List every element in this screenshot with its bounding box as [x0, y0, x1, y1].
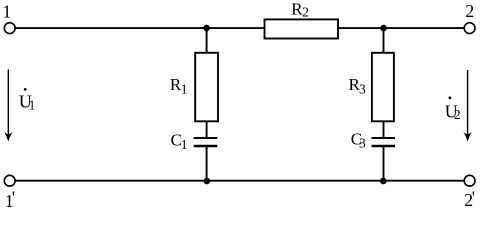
resistor R3	[372, 53, 394, 122]
arrow U1 (input voltage)	[4, 70, 13, 142]
wire: C1 down to node A'	[206, 146, 208, 181]
label U2 (dot over U)	[445, 96, 461, 121]
resistor R2	[265, 19, 339, 38]
arrow U2 (output voltage)	[463, 70, 472, 142]
svg-text:1: 1	[181, 82, 188, 97]
node B (top-right junction)	[380, 25, 387, 32]
label C3	[351, 129, 366, 150]
wire top-mid-right: R2 to node B	[338, 27, 384, 29]
wire bottom rail	[15, 180, 464, 182]
terminal 1 (top-left port)	[4, 23, 15, 34]
capacitor C1	[194, 138, 218, 146]
label R1	[170, 75, 188, 97]
svg-text:1: 1	[2, 1, 11, 21]
resistor R1	[195, 53, 218, 122]
svg-text:3: 3	[359, 135, 366, 150]
terminal 2' (bottom-right port)	[464, 175, 475, 186]
svg-text:3: 3	[359, 82, 366, 97]
svg-text:': '	[472, 187, 475, 207]
wire: C3 down to node B'	[383, 146, 385, 181]
terminal 2 (top-right port)	[464, 23, 475, 34]
wire: node B down to R3	[383, 28, 385, 52]
label R3	[349, 75, 367, 97]
wire: R1 to C1	[206, 121, 208, 138]
node A (top-left junction)	[203, 25, 210, 32]
svg-text:': '	[12, 188, 15, 208]
terminal 1' (bottom-left port)	[4, 175, 15, 186]
wire top-mid: node A to R2	[207, 27, 265, 29]
label R2	[291, 0, 309, 20]
svg-text:2: 2	[302, 5, 309, 20]
wire top-right: node B to terminal 2	[384, 27, 465, 29]
wire: node A down to R1	[206, 28, 208, 52]
svg-text:1: 1	[29, 97, 36, 112]
label C1	[171, 130, 188, 152]
svg-text:2: 2	[465, 1, 474, 21]
label U1 (dot over U)	[19, 88, 35, 112]
svg-text:2: 2	[454, 107, 461, 122]
node B' (bottom-right junction)	[380, 178, 387, 185]
capacitor C3	[372, 138, 396, 146]
wire: R3 to C3	[383, 121, 385, 138]
svg-text:1: 1	[181, 137, 188, 152]
wire top-left: terminal 1 to node A	[15, 27, 207, 29]
node A' (bottom-left junction)	[204, 178, 211, 185]
